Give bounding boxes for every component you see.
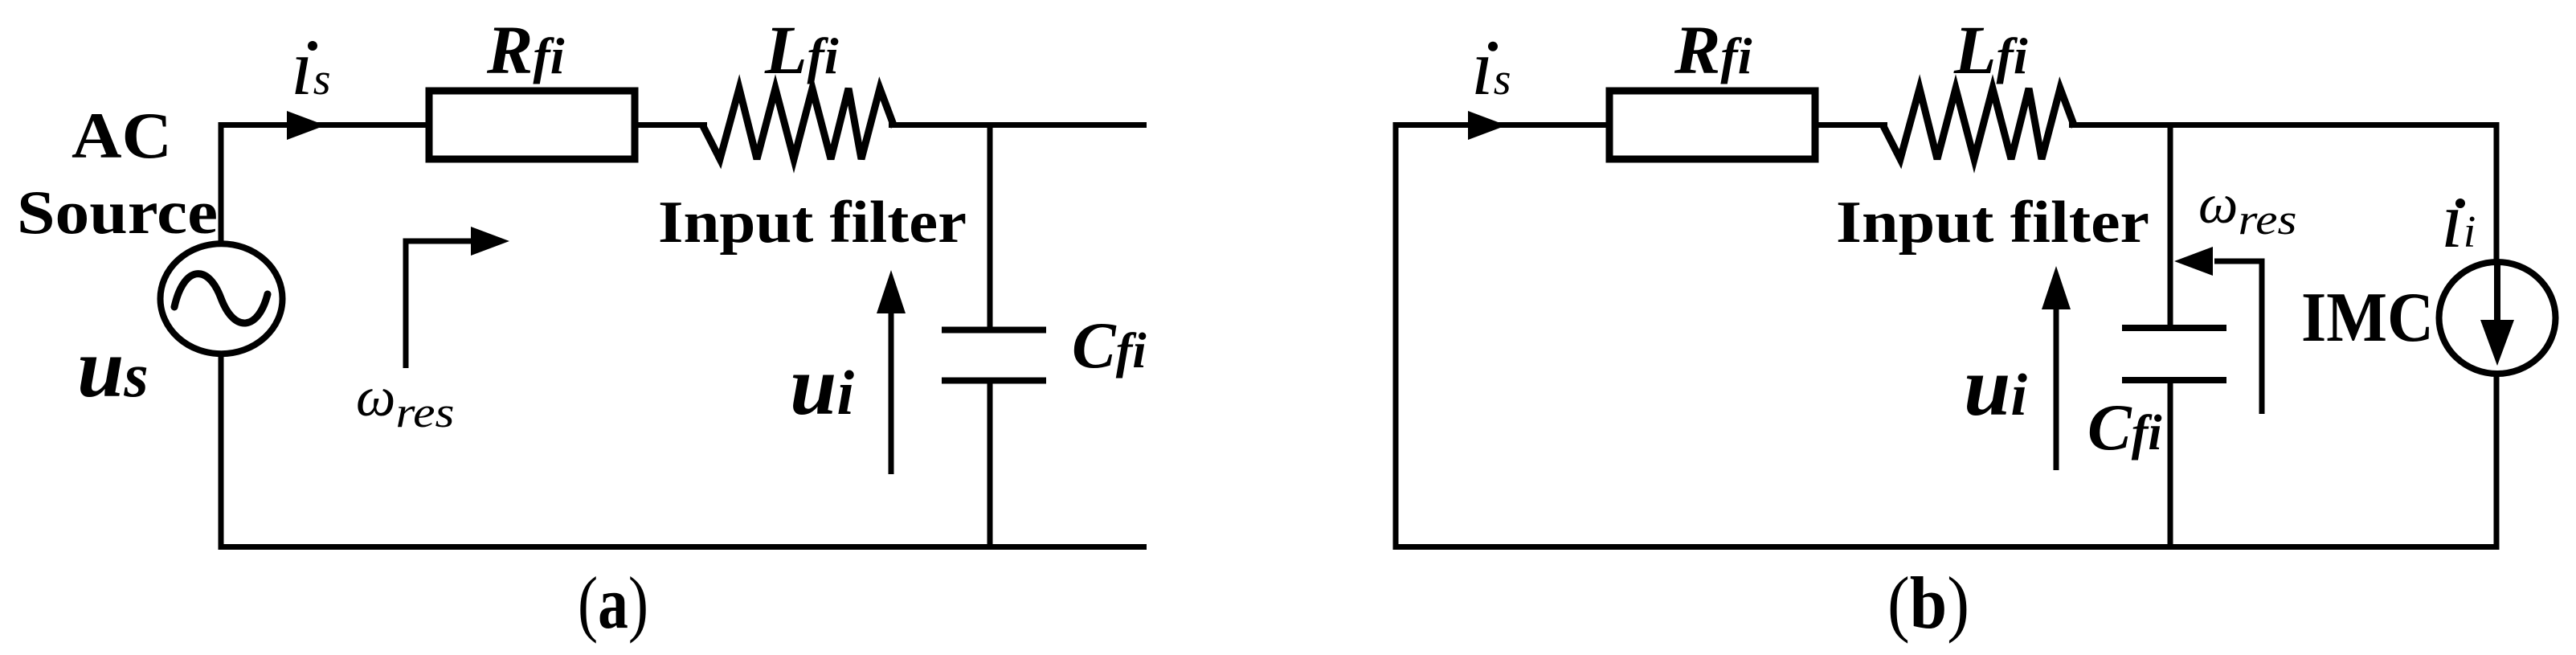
wire: (b) capacitor branch lower	[2168, 383, 2173, 550]
svg-text:ıs: ıs	[1471, 23, 1511, 112]
wire: (a) top rail left segment	[219, 122, 707, 128]
wire: (b) right vertical upper	[2494, 122, 2500, 263]
wire: (b) bottom rail	[1393, 544, 2497, 550]
current source IMC circle	[2439, 262, 2556, 374]
svg-text:ωres: ωres	[2198, 174, 2296, 244]
svg-text:IMC: IMC	[2301, 279, 2434, 357]
wire: (a) bottom rail	[219, 544, 1147, 550]
wire: (a) left vertical lower	[219, 354, 224, 550]
wire: (b) right vertical lower	[2494, 373, 2500, 550]
arrow ui (b) voltage arrow	[2054, 306, 2059, 470]
svg-text:Rfi: Rfi	[1674, 11, 1752, 88]
wire: (b) left vertical	[1393, 122, 1399, 550]
svg-text:Rfi: Rfi	[486, 11, 565, 88]
svg-text:ıs: ıs	[291, 23, 331, 112]
svg-text:Cfi: Cfi	[1072, 309, 1147, 382]
arrow omega_res (a) bent arrow	[406, 241, 471, 368]
arrow is (a) current direction	[287, 111, 325, 140]
svg-text:ωres: ωres	[356, 366, 454, 436]
wire: (a) capacitor branch upper	[987, 125, 993, 330]
svg-text:Input filter: Input filter	[1836, 190, 2149, 256]
arrow ui (a) voltage arrow	[889, 310, 894, 474]
wire: (a) left vertical upper	[219, 122, 224, 244]
wire: (a) capacitor branch lower	[987, 383, 993, 550]
inductor Lfi (a) zigzag	[702, 88, 894, 159]
current source IMC inner arrow	[2494, 265, 2500, 325]
arrow omega_res (b) bent arrow	[2214, 261, 2262, 414]
svg-text:AC: AC	[72, 99, 172, 172]
svg-text:Cfi: Cfi	[2087, 391, 2162, 464]
capacitor Cfi (b) top plate	[2122, 325, 2226, 331]
wire: (b) capacitor branch upper	[2168, 125, 2173, 328]
wire: (b) top rail left segment	[1396, 122, 1887, 128]
wire: (b) top rail right segment	[2069, 122, 2496, 128]
capacitor Cfi (a) bottom plate	[942, 378, 1046, 384]
AC source sine symbol	[174, 274, 268, 323]
svg-text:Lfi: Lfi	[764, 11, 839, 88]
AC source V1	[161, 244, 283, 354]
svg-text:ui: ui	[1964, 339, 2027, 433]
wire: (a) top rail right segment	[889, 122, 1147, 128]
inductor Lfi (b) zigzag	[1883, 88, 2075, 159]
arrow is (b) current direction	[1468, 111, 1507, 140]
svg-text:us: us	[77, 321, 149, 415]
svg-text:Lfi: Lfi	[1953, 11, 2028, 88]
svg-text:Input filter: Input filter	[658, 190, 967, 256]
svg-text:ıi: ıi	[2441, 175, 2476, 264]
capacitor Cfi (b) bottom plate	[2122, 377, 2226, 383]
capacitor Cfi (a) top plate	[942, 327, 1046, 334]
svg-text:ui: ui	[790, 338, 854, 432]
svg-text:(a): (a)	[578, 562, 648, 644]
resistor Rfi (a)	[429, 91, 635, 159]
svg-text:(b): (b)	[1887, 562, 1969, 644]
svg-text:Source: Source	[17, 178, 218, 247]
resistor Rfi (b)	[1609, 91, 1815, 159]
